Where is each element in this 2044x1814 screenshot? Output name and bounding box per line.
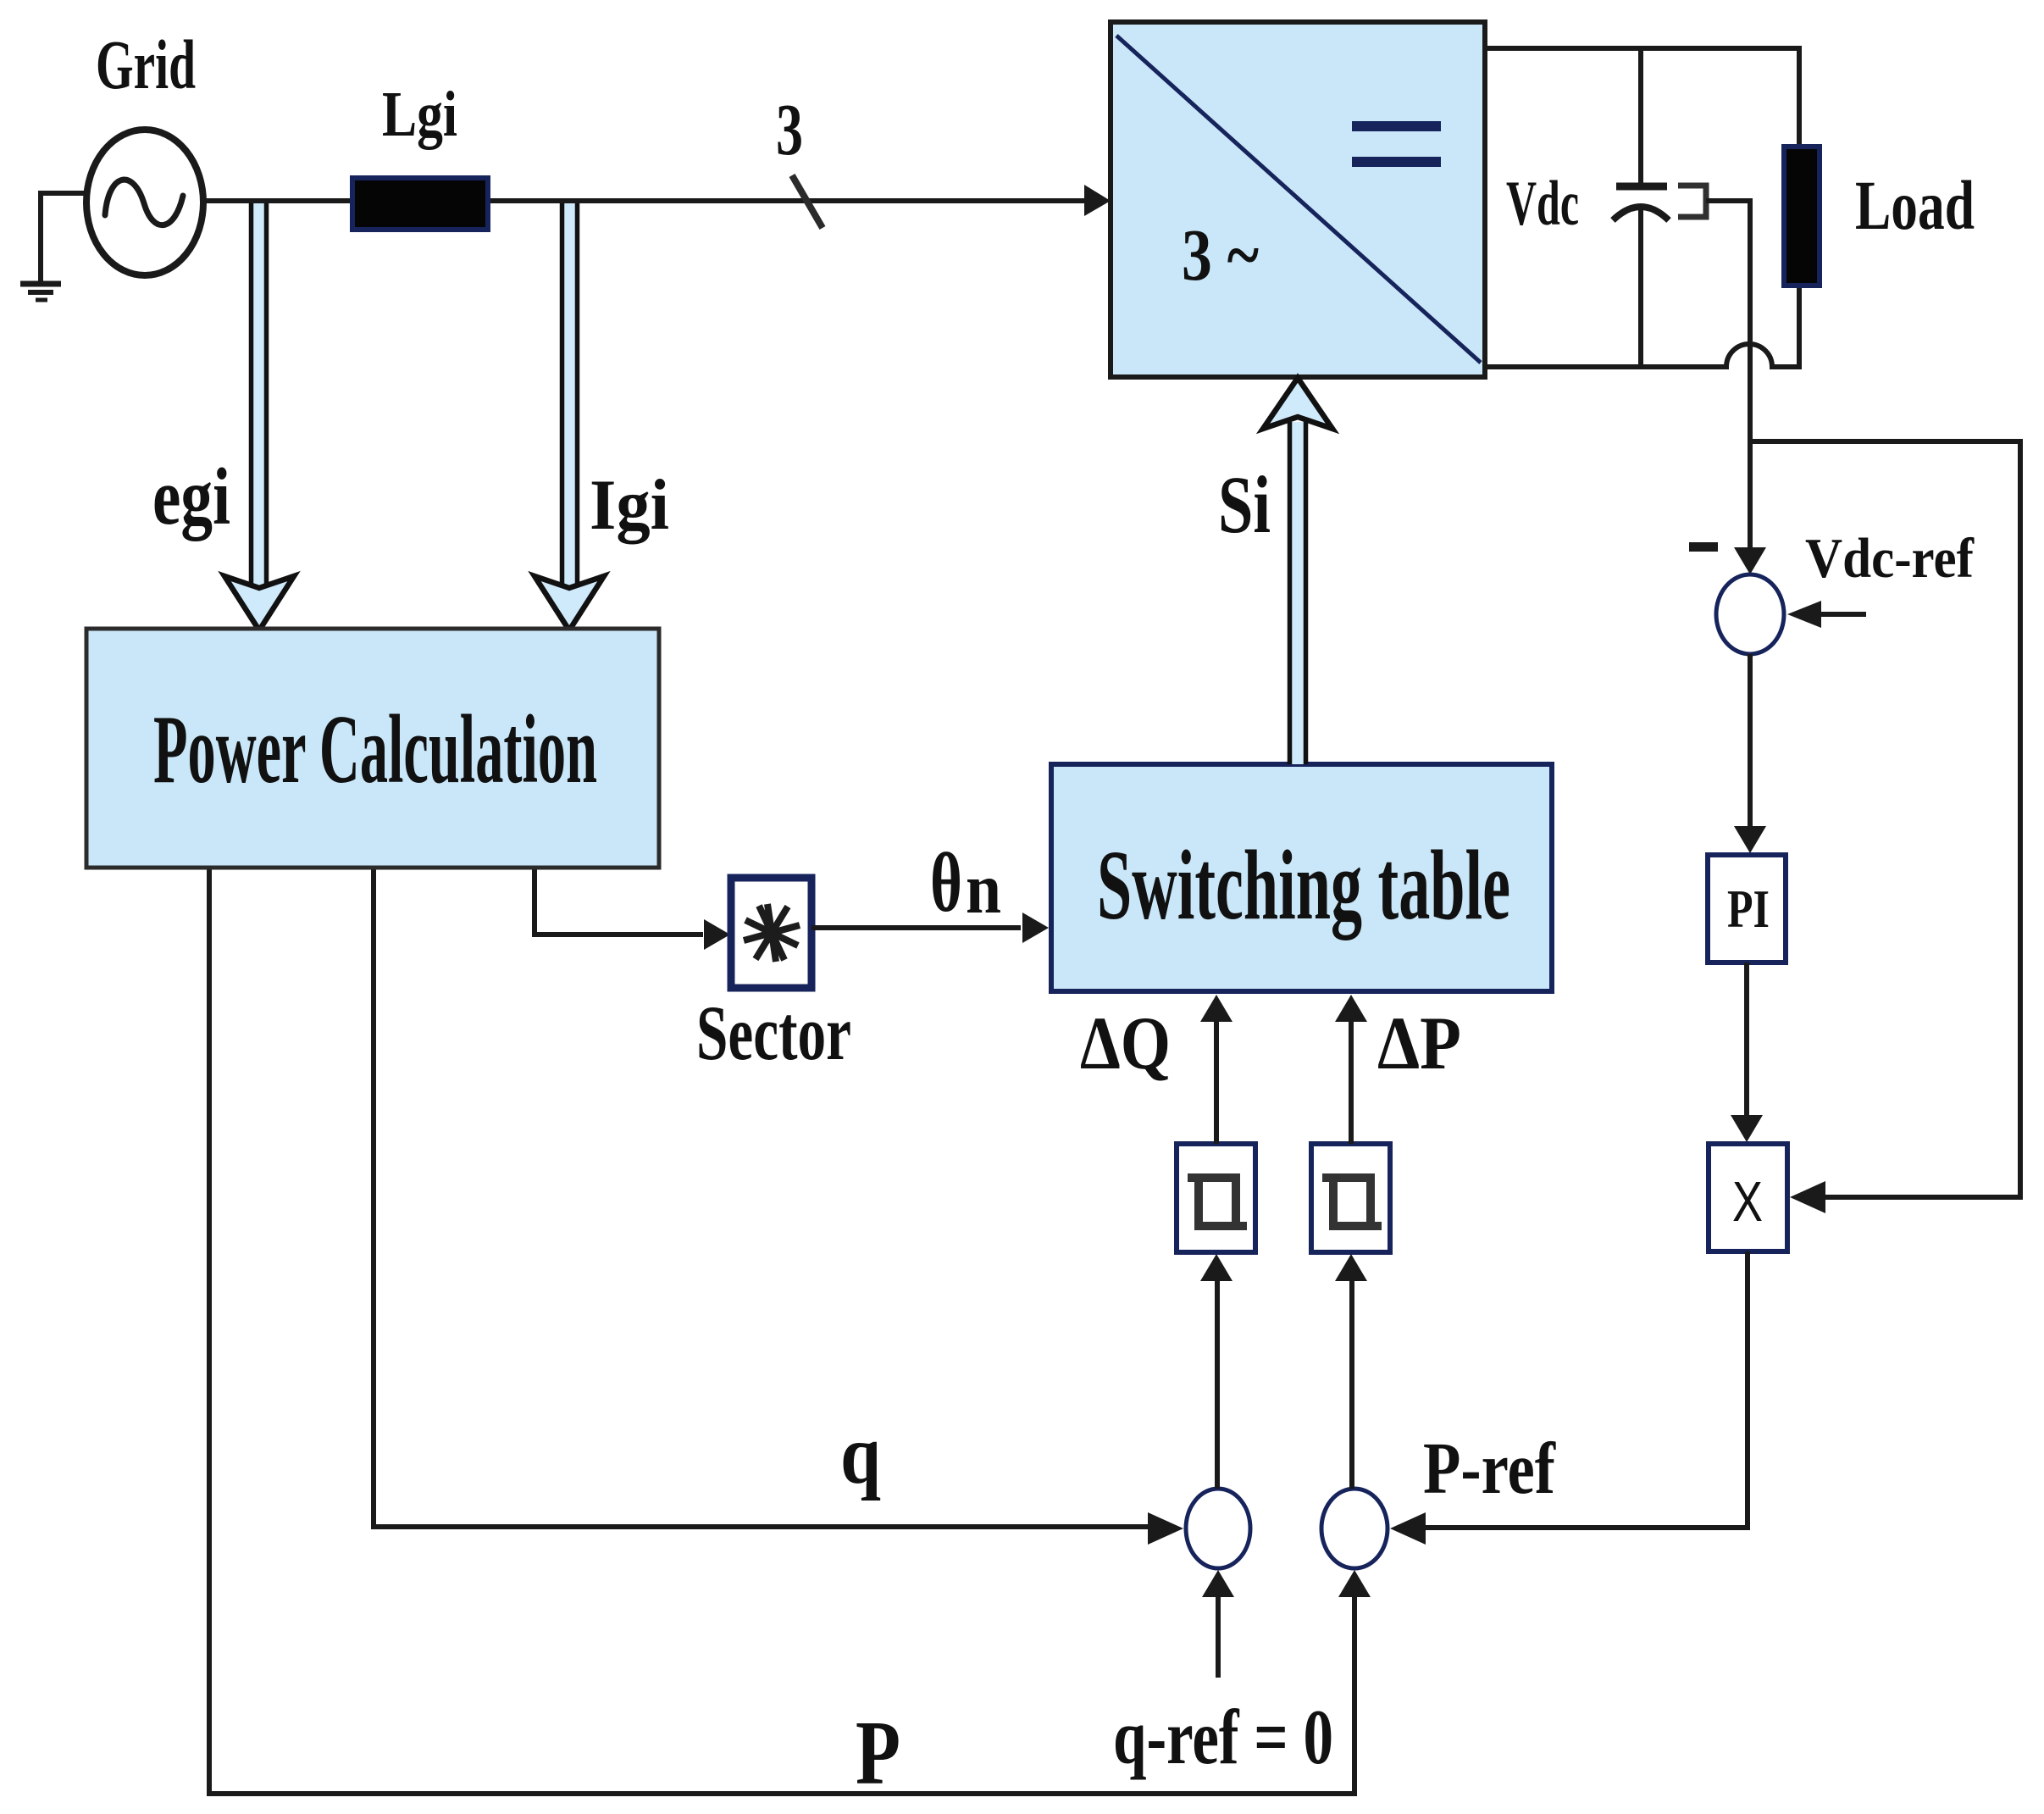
- minus sign: [1689, 542, 1718, 552]
- wire q junction to hysteresis Q: [1215, 1275, 1220, 1489]
- svg-text:Lgi: Lgi: [382, 79, 457, 150]
- wire P from Power Calculation: [209, 868, 1354, 1794]
- arrowhead q-ref into junction: [1202, 1570, 1234, 1597]
- hysteresis comparator P: [1311, 1144, 1390, 1252]
- wire PI to X: [1744, 962, 1749, 1120]
- wire grid source to ground: [41, 193, 90, 282]
- svg-text:Igi: Igi: [590, 465, 669, 545]
- bus Igi: [535, 203, 604, 630]
- arrowhead into Vdc summing junction: [1734, 547, 1766, 574]
- switching table block: [1051, 764, 1552, 991]
- svg-text:3 ~: 3 ~: [1182, 214, 1259, 296]
- wire ΔQ to switching table: [1214, 1017, 1219, 1144]
- svg-text:Power Calculation: Power Calculation: [153, 696, 597, 804]
- wire Vdc sense: [1706, 201, 1750, 552]
- AC source Grid: [86, 130, 203, 275]
- capacitor C: [1613, 48, 1669, 367]
- bus egi: [224, 203, 294, 630]
- wire Power Calculation to Sector: [535, 868, 703, 935]
- summing junction q: [1186, 1489, 1250, 1568]
- wire DC+ top: [1485, 48, 1799, 147]
- svg-text:ΔQ: ΔQ: [1080, 1002, 1171, 1085]
- arrowhead P-ref into P junction: [1390, 1512, 1426, 1545]
- svg-text:Grid: Grid: [96, 25, 196, 103]
- svg-text:X: X: [1732, 1170, 1763, 1234]
- wire q from Power Calculation: [374, 868, 1152, 1527]
- arrowhead into Sector: [704, 919, 730, 950]
- arrowhead ΔQ into switching table: [1200, 995, 1232, 1022]
- arrowhead into PI: [1734, 826, 1766, 853]
- wire Vdc feedback branch: [1750, 441, 2020, 1197]
- inductor Lgi: [352, 178, 488, 230]
- ground: [20, 284, 61, 300]
- arrowhead into X top: [1731, 1115, 1763, 1142]
- svg-text:Vdc: Vdc: [1506, 169, 1579, 239]
- wire main AC line: [201, 198, 1091, 203]
- svg-text:Switching table: Switching table: [1097, 829, 1510, 940]
- arrowhead θn into switching table: [1022, 913, 1049, 943]
- wire junction to PI: [1748, 654, 1753, 832]
- svg-text:P-ref: P-ref: [1423, 1427, 1556, 1509]
- arrowhead into hysteresis Q: [1200, 1254, 1232, 1281]
- svg-text:Sector: Sector: [696, 990, 851, 1076]
- arrowhead q into junction: [1148, 1512, 1183, 1545]
- wire q-ref input: [1216, 1591, 1221, 1678]
- svg-text:egi: egi: [152, 452, 230, 541]
- summing junction P: [1321, 1489, 1388, 1568]
- converter U1 AC/DC: [1111, 22, 1485, 377]
- svg-text:q: q: [840, 1407, 881, 1501]
- wire ΔP to switching table: [1349, 1017, 1354, 1144]
- arrowhead Vdc-ref into junction: [1787, 601, 1821, 628]
- arrowhead into X: [1790, 1181, 1825, 1213]
- wire P-ref from X to P summing junction: [1423, 1251, 1748, 1528]
- arrowhead ΔP into switching table: [1335, 995, 1367, 1022]
- svg-text:ΔP: ΔP: [1377, 1002, 1461, 1085]
- multiplier X: [1709, 1144, 1787, 1251]
- bus Si switching table to converter: [1263, 378, 1332, 764]
- svg-text:Vdc-ref: Vdc-ref: [1805, 527, 1975, 590]
- power calculation block: [86, 629, 659, 868]
- svg-text:Si: Si: [1218, 459, 1271, 550]
- wire DC- bottom with hop: [1485, 286, 1799, 367]
- svg-text:θ: θ: [930, 835, 962, 929]
- wire θn Sector to switching table: [812, 925, 1021, 930]
- wire P junction to hysteresis P: [1349, 1275, 1354, 1489]
- load R: [1784, 147, 1820, 286]
- arrowhead into converter: [1084, 185, 1111, 216]
- svg-text:Load: Load: [1855, 166, 1975, 244]
- sector detector: [731, 878, 812, 988]
- wire Vdc-ref input: [1817, 612, 1866, 617]
- arrowhead into hysteresis P: [1335, 1254, 1367, 1281]
- 3-phase slash marker: [792, 175, 823, 228]
- svg-text:3: 3: [776, 88, 803, 170]
- svg-text:PI: PI: [1727, 879, 1770, 939]
- svg-text:P: P: [856, 1703, 900, 1804]
- svg-text:q-ref = 0: q-ref = 0: [1113, 1694, 1333, 1780]
- voltage sensor tap: [1678, 186, 1706, 217]
- PI controller: [1708, 855, 1786, 962]
- arrowhead P into junction: [1338, 1570, 1371, 1597]
- summing junction Vdc: [1716, 574, 1784, 654]
- hysteresis comparator Q: [1177, 1144, 1255, 1252]
- svg-text:n: n: [966, 849, 1001, 929]
